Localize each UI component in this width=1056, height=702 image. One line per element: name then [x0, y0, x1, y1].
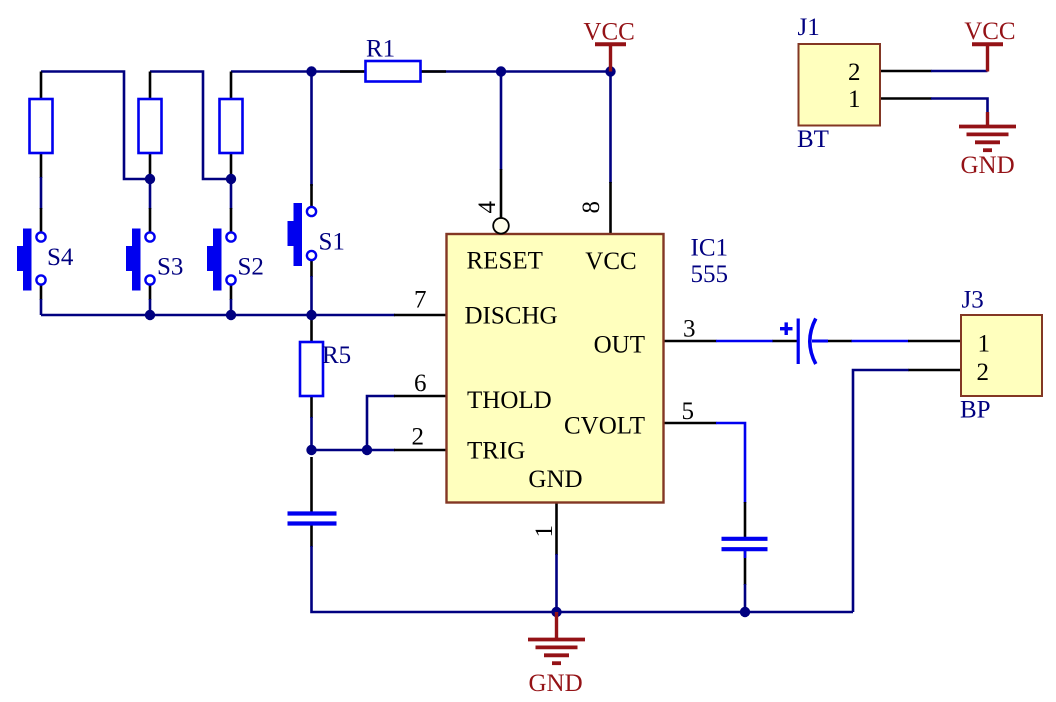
junction GND bus at pin1 [551, 607, 561, 617]
svg-text:2: 2 [977, 359, 990, 386]
wire OUT to C1 [716, 340, 773, 343]
pin 8 stub [609, 182, 612, 234]
pin 7 stub [394, 314, 447, 317]
junction TRIG node [306, 445, 316, 455]
junction C3 ground bus [740, 607, 750, 617]
resistor above S2 [220, 99, 243, 153]
pin stub R1 left [340, 70, 366, 73]
svg-text:J1: J1 [798, 14, 820, 41]
pin stub S2 switch bottom [230, 285, 233, 301]
pin stub S3 switch bottom [149, 285, 152, 301]
junction S3 top node [145, 174, 155, 184]
svg-text:VCC: VCC [964, 18, 1015, 45]
svg-text:S1: S1 [319, 229, 345, 256]
pin stub R5 top [310, 315, 313, 342]
svg-text:DISCHG: DISCHG [465, 303, 558, 330]
wire S3 to bottom bus [149, 299, 152, 315]
power VCC right [972, 44, 1003, 71]
switch S1 [288, 203, 317, 266]
wire switch bus to DISCHG [41, 314, 395, 317]
svg-text:1: 1 [978, 331, 991, 358]
wire S1 top drop [310, 72, 313, 187]
wire S2 column [230, 177, 233, 209]
pin 3 stub [664, 340, 717, 343]
svg-text:8: 8 [578, 201, 605, 214]
pin stub resistor top S3 col [149, 72, 152, 101]
svg-text:5: 5 [682, 398, 695, 425]
wire J3 pin2 to ground bus [853, 370, 909, 612]
pin stub cap C3 top [744, 502, 747, 537]
pin stub S3 switch top [149, 208, 152, 233]
wire TRIG net [312, 449, 396, 452]
svg-text:OUT: OUT [594, 332, 645, 359]
pin stub resistor bottom S3 [149, 153, 152, 178]
pin stub resistor bottom S2 [230, 153, 233, 178]
svg-text:CVOLT: CVOLT [564, 413, 645, 440]
svg-text:S2: S2 [238, 254, 264, 281]
pin stub J3 pin2 [908, 369, 961, 372]
wire R5 to TRIG [310, 417, 313, 452]
svg-text:R1: R1 [366, 36, 395, 63]
pin stub resistor bottom S4 [40, 153, 43, 178]
pin stub resistor top S4 col [40, 72, 43, 101]
pin stub cap C1 left [773, 340, 798, 343]
pin stub cap C1 right [826, 340, 852, 343]
svg-text:IC1: IC1 [691, 235, 729, 262]
ground stem J1 [986, 112, 989, 127]
pin 4 stub [500, 169, 503, 218]
junction S1/R5 DISCHG node [306, 310, 316, 320]
pin 5 stub [664, 422, 717, 425]
pin stub cap C2 top [310, 457, 313, 512]
wire S1 to DISCHG bus [310, 276, 313, 315]
wire S4 column [40, 177, 43, 209]
pin stub J1 pin1 [880, 97, 932, 100]
svg-text:RESET: RESET [467, 248, 543, 275]
svg-text:VCC: VCC [585, 248, 636, 275]
svg-text:555: 555 [691, 261, 729, 288]
pin stub J1 pin2 [880, 70, 932, 73]
wire S3 column [149, 177, 152, 209]
wire J1 pin2 to VCC [931, 70, 988, 73]
switch S3 [126, 229, 155, 291]
switch S2 [207, 229, 236, 291]
resistor above S3 [139, 99, 162, 153]
pin stub cap C3 bottom [744, 551, 747, 585]
svg-text:GND: GND [961, 152, 1015, 179]
wire C1 to J3 pin1 [852, 340, 909, 343]
wire bottom ground bus [312, 546, 854, 612]
svg-text:BT: BT [797, 126, 829, 153]
svg-text:4: 4 [474, 201, 501, 214]
junction RESET bus [496, 66, 506, 76]
pin 6 stub [394, 395, 447, 398]
wire S4 to bottom bus [40, 299, 43, 315]
svg-text:GND: GND [529, 670, 583, 697]
connector J3 [961, 315, 1042, 396]
svg-text:2: 2 [848, 59, 861, 86]
svg-text:BP: BP [960, 397, 991, 424]
svg-text:1: 1 [531, 525, 558, 538]
wire J1 pin1 to GND [931, 99, 988, 114]
svg-text:J3: J3 [962, 287, 984, 314]
pin stub cap C2 bottom [310, 525, 313, 547]
capacitor C3 [722, 539, 768, 549]
connector J1 [799, 44, 881, 126]
op-amp U1: IC1 555 timer box [447, 234, 664, 503]
svg-text:R5: R5 [322, 342, 351, 369]
wire THOLD branch [367, 396, 395, 450]
svg-text:7: 7 [414, 287, 427, 314]
resistor R1 [366, 61, 421, 82]
junction S3 bottom bus [145, 310, 155, 320]
wire cap C3 lead [744, 551, 747, 558]
pin stub J3 pin1 [908, 340, 961, 343]
svg-text:GND: GND [528, 466, 582, 493]
svg-text:S3: S3 [157, 254, 183, 281]
resistor R5 [300, 342, 323, 396]
svg-text:6: 6 [414, 370, 427, 397]
pin stub S4 switch top [40, 208, 43, 233]
junction S2 top node [226, 174, 236, 184]
junction S2 bottom bus [226, 310, 236, 320]
svg-text:THOLD: THOLD [467, 387, 552, 414]
wire top bus to R1/VCC [231, 70, 611, 73]
svg-text:TRIG: TRIG [467, 438, 525, 465]
wire pin1 to ground bus [555, 554, 558, 612]
pin 1 stub [555, 503, 558, 556]
wire net S3top-S2top [150, 72, 231, 180]
pin stub S1 bottom [310, 260, 313, 277]
junction S1 top bus [306, 66, 316, 76]
wire CVOLT to cap C3 [716, 423, 745, 503]
capacitor C2 [288, 514, 337, 524]
pin 2 stub [394, 449, 447, 452]
svg-text:3: 3 [683, 316, 696, 343]
resistor above S4 [30, 99, 53, 153]
pin 4 inversion bubble [493, 218, 509, 234]
svg-text:1: 1 [848, 86, 861, 113]
wire net S4top-S3top [41, 72, 150, 180]
svg-text:2: 2 [412, 424, 425, 451]
capacitor C1 polarized [780, 319, 828, 365]
pin stub resistor top S2 col [230, 72, 233, 101]
pin stub S1 top [310, 184, 313, 208]
svg-text:VCC: VCC [583, 19, 634, 46]
pin stub S4 switch bottom [40, 285, 43, 301]
ground stem bottom [555, 612, 558, 640]
wire RESET drop [500, 72, 503, 171]
pin stub R5 bottom [310, 396, 313, 418]
wire S2 to bottom bus [230, 299, 233, 315]
ground symbol bottom [528, 640, 585, 664]
pin stub S2 switch top [230, 208, 233, 233]
wire VCC pin8 drop [609, 72, 612, 184]
ground symbol right [959, 127, 1016, 151]
junction VCC bus [605, 66, 615, 76]
svg-text:S4: S4 [47, 244, 74, 271]
power VCC mid [595, 44, 626, 71]
junction THOLD/TRIG tie [362, 445, 372, 455]
switch S4 [17, 229, 46, 291]
wire cap C3 to ground bus [744, 584, 747, 612]
pin stub R1 right [420, 70, 446, 73]
